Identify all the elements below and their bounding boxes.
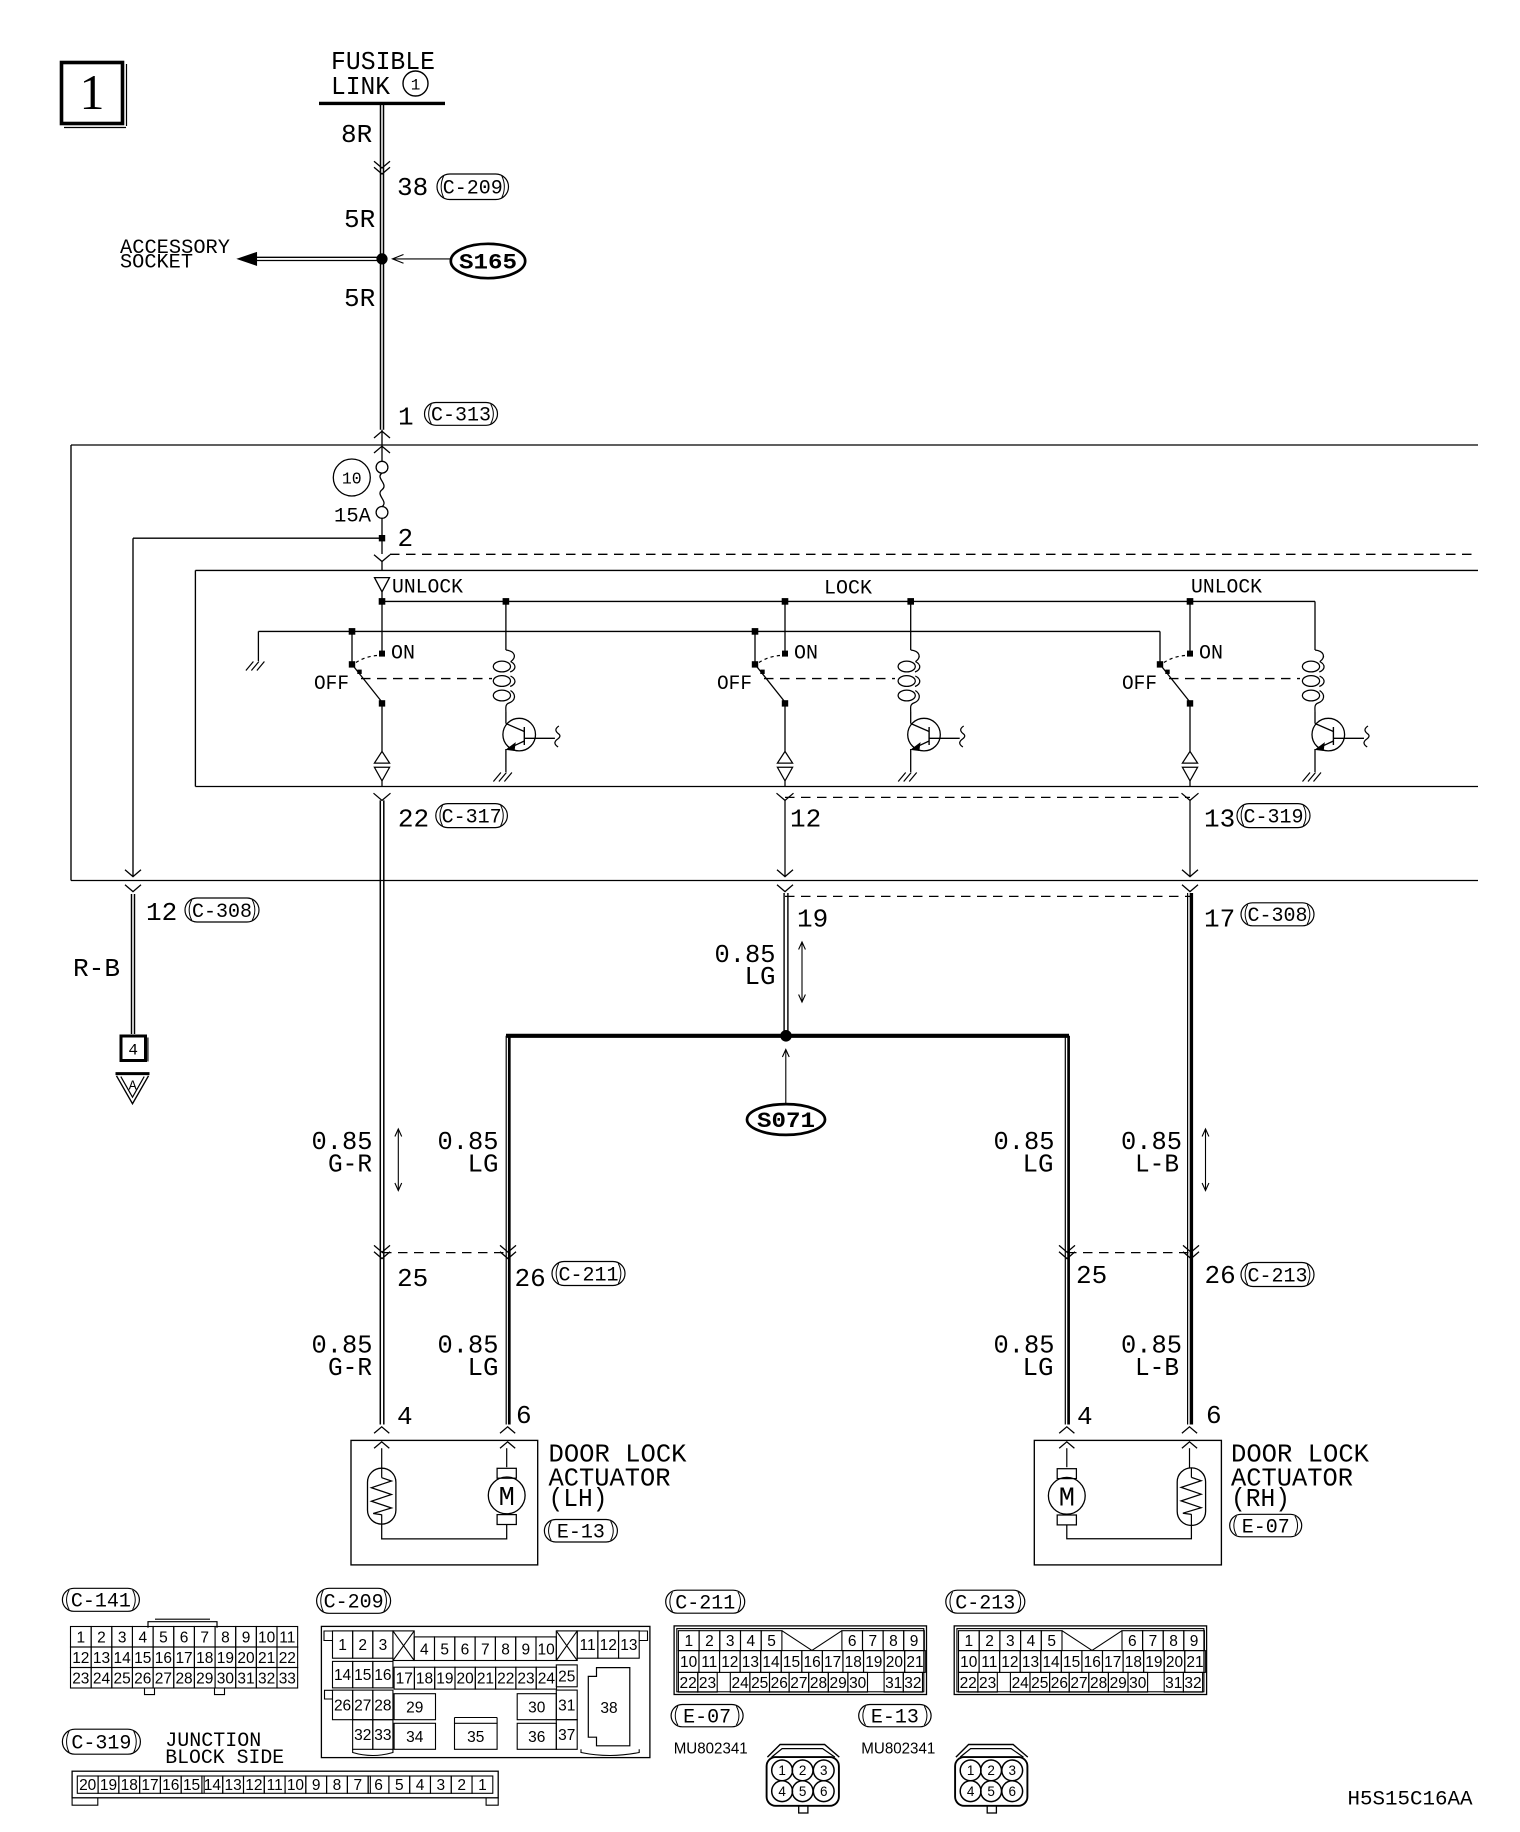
svg-text:23: 23 (72, 1670, 89, 1687)
svg-text:16: 16 (803, 1654, 820, 1671)
svg-text:33: 33 (374, 1727, 391, 1744)
svg-text:26: 26 (771, 1675, 788, 1692)
svg-text:C-319: C-319 (71, 1733, 131, 1756)
svg-text:16: 16 (374, 1667, 391, 1684)
svg-text:5: 5 (799, 1784, 807, 1799)
svg-text:C-211: C-211 (558, 1264, 618, 1287)
svg-text:13: 13 (1022, 1654, 1039, 1671)
svg-text:22: 22 (398, 805, 429, 835)
svg-text:15: 15 (783, 1654, 800, 1671)
svg-text:10: 10 (538, 1641, 556, 1658)
svg-text:A: A (129, 1080, 138, 1095)
svg-text:2: 2 (358, 1637, 367, 1654)
svg-text:19: 19 (217, 1650, 234, 1667)
svg-text:2: 2 (987, 1763, 995, 1778)
svg-text:17: 17 (175, 1650, 192, 1667)
svg-text:MU802341: MU802341 (674, 1741, 748, 1758)
svg-text:32: 32 (258, 1670, 275, 1687)
svg-text:4: 4 (397, 1402, 413, 1432)
svg-text:13: 13 (93, 1650, 110, 1667)
svg-text:23: 23 (699, 1675, 716, 1692)
svg-text:19: 19 (1145, 1654, 1162, 1671)
svg-text:C-317: C-317 (442, 806, 502, 829)
svg-text:C-319: C-319 (1243, 806, 1303, 829)
svg-text:22: 22 (960, 1675, 977, 1692)
svg-text:28: 28 (374, 1697, 391, 1714)
svg-text:20: 20 (1166, 1654, 1184, 1671)
svg-text:L-B: L-B (1135, 1353, 1179, 1383)
svg-text:5: 5 (440, 1641, 449, 1658)
svg-text:31: 31 (1165, 1675, 1182, 1692)
svg-text:4: 4 (1077, 1402, 1093, 1432)
svg-text:4: 4 (1027, 1633, 1036, 1650)
svg-text:9: 9 (1190, 1633, 1199, 1650)
svg-text:5: 5 (159, 1629, 168, 1646)
svg-text:29: 29 (1110, 1675, 1127, 1692)
svg-text:33: 33 (279, 1670, 296, 1687)
svg-text:17: 17 (141, 1777, 158, 1794)
svg-text:29: 29 (406, 1699, 423, 1716)
svg-text:3: 3 (820, 1763, 828, 1778)
svg-text:21: 21 (1186, 1654, 1203, 1671)
svg-text:M: M (1059, 1485, 1075, 1515)
svg-text:OFF: OFF (717, 673, 752, 696)
svg-text:H5S15C16AA: H5S15C16AA (1348, 1789, 1473, 1812)
svg-text:4: 4 (138, 1629, 147, 1646)
svg-text:26: 26 (1205, 1261, 1236, 1291)
svg-text:C-213: C-213 (955, 1593, 1015, 1616)
svg-text:S071: S071 (757, 1109, 815, 1134)
svg-text:1: 1 (77, 1629, 86, 1646)
svg-text:14: 14 (762, 1654, 780, 1671)
svg-text:22: 22 (279, 1650, 296, 1667)
svg-text:10: 10 (342, 470, 362, 489)
svg-text:7: 7 (481, 1641, 490, 1658)
svg-text:4: 4 (420, 1641, 429, 1658)
svg-text:29: 29 (829, 1675, 846, 1692)
svg-text:ON: ON (794, 643, 818, 666)
svg-text:1: 1 (411, 77, 421, 95)
svg-text:12: 12 (1001, 1654, 1018, 1671)
svg-text:25: 25 (558, 1668, 575, 1685)
svg-text:ON: ON (1199, 643, 1223, 666)
svg-text:7: 7 (353, 1777, 362, 1794)
svg-text:1: 1 (684, 1633, 693, 1650)
svg-text:10: 10 (960, 1654, 978, 1671)
svg-text:26: 26 (334, 1697, 351, 1714)
svg-text:18: 18 (845, 1654, 862, 1671)
svg-text:18: 18 (416, 1671, 433, 1688)
svg-text:14: 14 (204, 1777, 222, 1794)
svg-text:25: 25 (751, 1675, 768, 1692)
svg-text:7: 7 (1149, 1633, 1158, 1650)
svg-text:24: 24 (93, 1670, 111, 1687)
svg-text:13: 13 (224, 1777, 241, 1794)
svg-text:4: 4 (128, 1042, 138, 1060)
svg-text:25: 25 (1031, 1675, 1048, 1692)
svg-text:E-13: E-13 (557, 1522, 605, 1545)
svg-text:13: 13 (620, 1637, 637, 1654)
svg-text:8: 8 (1169, 1633, 1178, 1650)
svg-text:8: 8 (221, 1629, 230, 1646)
svg-text:18: 18 (1125, 1654, 1142, 1671)
svg-text:UNLOCK: UNLOCK (1191, 577, 1262, 600)
svg-text:21: 21 (258, 1650, 275, 1667)
svg-text:27: 27 (1070, 1675, 1087, 1692)
svg-text:15A: 15A (334, 506, 371, 529)
svg-text:18: 18 (121, 1777, 138, 1794)
svg-text:35: 35 (467, 1729, 484, 1746)
svg-text:28: 28 (1090, 1675, 1107, 1692)
svg-text:20: 20 (457, 1671, 475, 1688)
svg-text:C-209: C-209 (324, 1592, 384, 1615)
svg-text:G-R: G-R (328, 1149, 372, 1179)
svg-text:25: 25 (1076, 1261, 1107, 1291)
svg-text:38: 38 (600, 1700, 617, 1717)
svg-text:1: 1 (967, 1763, 975, 1778)
svg-text:LG: LG (468, 1149, 499, 1179)
svg-text:27: 27 (155, 1670, 172, 1687)
svg-text:9: 9 (312, 1777, 321, 1794)
svg-text:C-308: C-308 (192, 901, 252, 924)
svg-text:4: 4 (778, 1784, 786, 1799)
svg-text:ON: ON (391, 643, 415, 666)
svg-text:(LH): (LH) (549, 1484, 608, 1514)
svg-text:32: 32 (354, 1727, 371, 1744)
svg-text:E-07: E-07 (683, 1706, 731, 1729)
svg-text:12: 12 (790, 805, 821, 835)
svg-text:E-13: E-13 (871, 1706, 919, 1729)
svg-text:LOCK: LOCK (824, 578, 872, 601)
svg-text:26: 26 (515, 1264, 546, 1294)
svg-text:BLOCK SIDE: BLOCK SIDE (165, 1747, 284, 1770)
svg-text:37: 37 (558, 1727, 575, 1744)
svg-text:1: 1 (478, 1777, 487, 1794)
svg-text:SOCKET: SOCKET (120, 252, 193, 275)
svg-text:11: 11 (579, 1637, 595, 1654)
svg-text:5R: 5R (344, 284, 375, 314)
svg-text:26: 26 (134, 1670, 151, 1687)
svg-text:27: 27 (354, 1697, 371, 1714)
svg-text:28: 28 (175, 1670, 192, 1687)
svg-text:34: 34 (406, 1729, 424, 1746)
svg-text:19: 19 (797, 905, 828, 935)
svg-text:LG: LG (1023, 1353, 1054, 1383)
svg-text:19: 19 (865, 1654, 882, 1671)
svg-text:17: 17 (824, 1654, 841, 1671)
svg-text:30: 30 (1129, 1675, 1147, 1692)
svg-text:UNLOCK: UNLOCK (392, 577, 463, 600)
svg-text:25: 25 (114, 1670, 131, 1687)
svg-text:LINK: LINK (331, 72, 390, 102)
svg-text:13: 13 (1204, 805, 1235, 835)
svg-text:21: 21 (906, 1654, 923, 1671)
svg-text:12: 12 (72, 1650, 89, 1667)
svg-text:LG: LG (745, 962, 776, 992)
svg-text:17: 17 (396, 1671, 413, 1688)
svg-text:11: 11 (267, 1777, 283, 1794)
svg-text:6: 6 (180, 1629, 189, 1646)
svg-text:14: 14 (1042, 1654, 1060, 1671)
svg-text:3: 3 (118, 1629, 127, 1646)
svg-text:S165: S165 (459, 251, 517, 276)
svg-text:C-209: C-209 (443, 178, 503, 201)
svg-text:8R: 8R (341, 120, 372, 150)
svg-text:32: 32 (1184, 1675, 1201, 1692)
svg-text:19: 19 (100, 1777, 117, 1794)
svg-text:R-B: R-B (73, 954, 120, 984)
svg-text:LG: LG (468, 1353, 499, 1383)
svg-text:19: 19 (436, 1671, 453, 1688)
svg-text:2: 2 (97, 1629, 106, 1646)
svg-text:3: 3 (726, 1633, 735, 1650)
svg-text:6: 6 (820, 1784, 828, 1799)
svg-text:23: 23 (517, 1671, 534, 1688)
svg-text:25: 25 (397, 1264, 428, 1294)
svg-text:LG: LG (1023, 1149, 1054, 1179)
svg-text:17: 17 (1204, 905, 1235, 935)
svg-text:MU802341: MU802341 (861, 1741, 935, 1758)
svg-text:2: 2 (799, 1763, 807, 1778)
svg-text:4: 4 (416, 1777, 425, 1794)
svg-text:12: 12 (146, 898, 177, 928)
svg-text:20: 20 (886, 1654, 904, 1671)
svg-text:(RH): (RH) (1231, 1484, 1290, 1514)
svg-text:22: 22 (497, 1671, 514, 1688)
svg-text:38: 38 (397, 173, 428, 203)
svg-text:30: 30 (528, 1699, 546, 1716)
svg-text:10: 10 (258, 1629, 276, 1646)
svg-text:7: 7 (868, 1633, 877, 1650)
svg-text:21: 21 (477, 1671, 494, 1688)
svg-text:23: 23 (979, 1675, 996, 1692)
svg-text:4: 4 (967, 1784, 975, 1799)
svg-text:8: 8 (333, 1777, 342, 1794)
svg-text:7: 7 (200, 1629, 209, 1646)
svg-text:24: 24 (1012, 1675, 1030, 1692)
svg-text:1: 1 (338, 1637, 347, 1654)
svg-text:27: 27 (790, 1675, 807, 1692)
svg-text:14: 14 (114, 1650, 132, 1667)
svg-text:2: 2 (398, 524, 414, 554)
svg-text:36: 36 (528, 1729, 545, 1746)
svg-text:20: 20 (237, 1650, 255, 1667)
svg-text:17: 17 (1104, 1654, 1121, 1671)
svg-text:C-213: C-213 (1247, 1265, 1307, 1288)
svg-text:3: 3 (1008, 1763, 1016, 1778)
svg-text:2: 2 (457, 1777, 466, 1794)
svg-text:16: 16 (155, 1650, 172, 1667)
svg-text:4: 4 (747, 1633, 756, 1650)
svg-text:11: 11 (701, 1654, 717, 1671)
svg-text:16: 16 (162, 1777, 179, 1794)
svg-text:15: 15 (134, 1650, 151, 1667)
svg-text:22: 22 (679, 1675, 696, 1692)
svg-text:32: 32 (904, 1675, 921, 1692)
svg-text:6: 6 (461, 1641, 470, 1658)
svg-text:C-313: C-313 (431, 405, 491, 428)
svg-text:2: 2 (985, 1633, 994, 1650)
svg-text:24: 24 (538, 1671, 556, 1688)
svg-text:31: 31 (885, 1675, 902, 1692)
svg-text:1: 1 (80, 64, 105, 120)
svg-text:1: 1 (965, 1633, 974, 1650)
svg-text:11: 11 (981, 1654, 997, 1671)
svg-text:L-B: L-B (1135, 1149, 1179, 1179)
svg-text:6: 6 (1206, 1401, 1222, 1431)
svg-text:15: 15 (183, 1777, 200, 1794)
svg-text:3: 3 (379, 1637, 388, 1654)
svg-text:5: 5 (767, 1633, 776, 1650)
svg-text:3: 3 (1006, 1633, 1015, 1650)
svg-text:9: 9 (910, 1633, 919, 1650)
svg-text:20: 20 (79, 1777, 97, 1794)
svg-text:15: 15 (1063, 1654, 1080, 1671)
svg-text:30: 30 (849, 1675, 867, 1692)
svg-text:15: 15 (354, 1667, 371, 1684)
svg-text:OFF: OFF (314, 673, 349, 696)
svg-text:26: 26 (1051, 1675, 1068, 1692)
svg-text:12: 12 (600, 1637, 617, 1654)
svg-text:C-141: C-141 (71, 1591, 131, 1614)
svg-text:12: 12 (721, 1654, 738, 1671)
svg-text:9: 9 (242, 1629, 251, 1646)
svg-text:1: 1 (398, 403, 414, 433)
svg-text:28: 28 (810, 1675, 827, 1692)
svg-text:16: 16 (1084, 1654, 1101, 1671)
svg-text:C-211: C-211 (675, 1593, 735, 1616)
svg-text:2: 2 (705, 1633, 714, 1650)
svg-text:30: 30 (217, 1670, 235, 1687)
svg-text:6: 6 (848, 1633, 857, 1650)
svg-text:9: 9 (522, 1641, 531, 1658)
svg-text:24: 24 (731, 1675, 749, 1692)
svg-text:11: 11 (279, 1629, 295, 1646)
svg-text:31: 31 (558, 1697, 575, 1714)
svg-text:6: 6 (1008, 1784, 1016, 1799)
svg-text:E-07: E-07 (1242, 1516, 1290, 1539)
svg-text:8: 8 (501, 1641, 510, 1658)
svg-text:29: 29 (196, 1670, 213, 1687)
svg-text:C-308: C-308 (1247, 905, 1307, 928)
svg-text:5: 5 (395, 1777, 404, 1794)
svg-text:12: 12 (245, 1777, 262, 1794)
svg-text:18: 18 (196, 1650, 213, 1667)
svg-text:M: M (499, 1484, 515, 1514)
svg-text:8: 8 (889, 1633, 898, 1650)
svg-text:1: 1 (778, 1763, 786, 1778)
svg-text:10: 10 (287, 1777, 305, 1794)
svg-text:10: 10 (680, 1654, 698, 1671)
svg-text:14: 14 (334, 1667, 352, 1684)
svg-text:5: 5 (1047, 1633, 1056, 1650)
svg-text:3: 3 (437, 1777, 446, 1794)
svg-text:5: 5 (987, 1784, 995, 1799)
svg-text:G-R: G-R (328, 1353, 372, 1383)
svg-text:13: 13 (742, 1654, 759, 1671)
svg-text:OFF: OFF (1122, 673, 1157, 696)
svg-text:31: 31 (237, 1670, 254, 1687)
svg-text:5R: 5R (344, 205, 375, 235)
svg-text:6: 6 (374, 1777, 383, 1794)
svg-text:6: 6 (1128, 1633, 1137, 1650)
svg-text:6: 6 (516, 1401, 532, 1431)
